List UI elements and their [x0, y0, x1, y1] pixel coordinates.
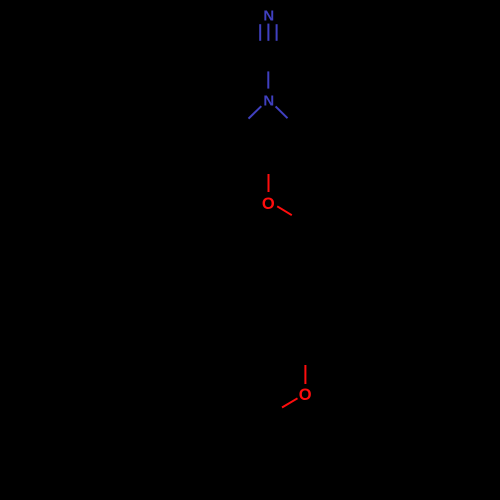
- svg-text:O: O: [299, 386, 312, 404]
- svg-text:N: N: [263, 7, 274, 24]
- wire: O2-CH2 bond (O half, diagonal red): [282, 398, 298, 407]
- svg-text:N: N: [263, 92, 274, 109]
- wire: ring bond N-C2 (left, N half): [249, 106, 262, 118]
- triple bond C#N (three parallel blue lines, N half): [260, 24, 276, 41]
- wire: ring bond N-C4 (right, N half): [276, 106, 288, 118]
- wire: O1-CH2 bond (O half, diagonal red): [277, 206, 292, 215]
- wire: C3-O bond (O half, vertical red): [268, 174, 270, 192]
- wire: C-O2 bond (O half, vertical red): [304, 365, 306, 384]
- svg-text:O: O: [262, 195, 275, 213]
- wire: C-N bond (N half, azetidine nitrogen side): [267, 71, 269, 88]
